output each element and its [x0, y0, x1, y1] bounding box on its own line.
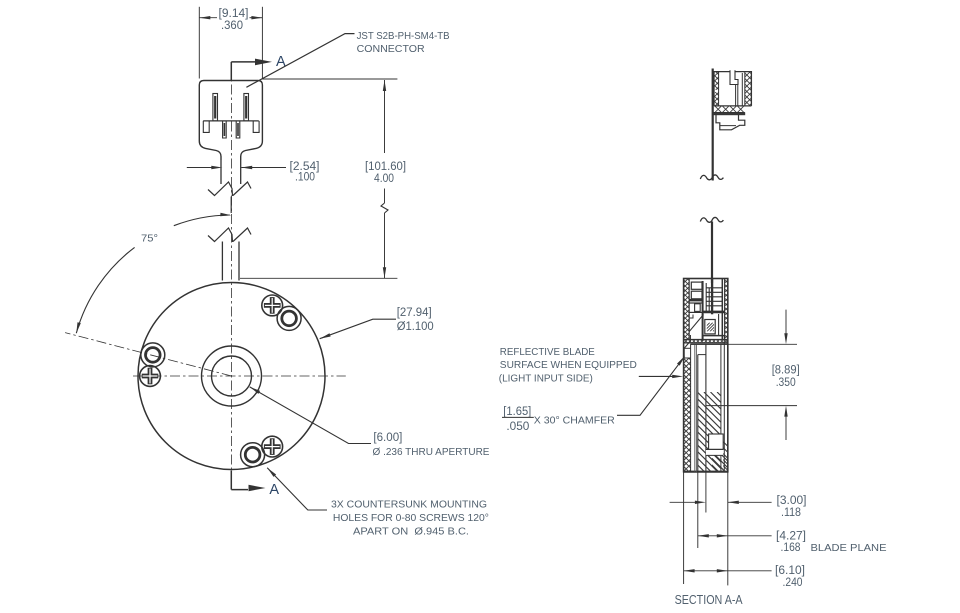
cable break upper (front view) — [208, 182, 233, 196]
svg-text:75°: 75° — [141, 233, 158, 245]
connector inner shelf line — [203, 120, 259, 122]
cable break lower (front view) — [208, 228, 233, 242]
svg-text:.350: .350 — [776, 377, 796, 389]
svg-text:APART ON Ø.945 B.C.: APART ON Ø.945 B.C. — [353, 527, 469, 538]
receptacle center post — [702, 281, 704, 341]
75 deg arc segment lower — [76, 247, 134, 333]
svg-text:[8.89]: [8.89] — [772, 364, 800, 376]
small shelf in slot — [698, 354, 706, 356]
svg-text:[1.65]: [1.65] — [503, 406, 531, 418]
receptacle window A1 — [691, 282, 702, 289]
receptacle inner right wall line — [721, 279, 723, 340]
section cut line A top — [230, 62, 232, 80]
svg-text:A: A — [269, 482, 279, 498]
receptacle inner line right of E — [718, 314, 720, 336]
connector side inner contact — [735, 85, 737, 106]
hatch window right — [709, 434, 724, 449]
window lower line — [706, 448, 723, 450]
svg-text:SECTION A-A: SECTION A-A — [675, 592, 743, 607]
dim [3.00]/.118 — [670, 501, 696, 503]
JST connector front view body — [199, 81, 262, 161]
connector side top notch — [730, 70, 738, 84]
inner vertical thin pair — [694, 344, 696, 471]
mounting hole bottom — [241, 443, 265, 467]
dim [101.60] bottom extension line — [240, 277, 397, 279]
countersunk screw left — [140, 366, 161, 387]
svg-text:4.00: 4.00 — [374, 173, 394, 185]
cable line lower (section view) — [711, 222, 713, 284]
horizontal centerline — [133, 375, 346, 377]
blade plane line — [697, 355, 699, 472]
svg-text:(LIGHT INPUT SIDE): (LIGHT INPUT SIDE) — [499, 373, 593, 384]
section body outline — [684, 279, 728, 472]
svg-text:HOLES FOR 0-80 SCREWS 120°: HOLES FOR 0-80 SCREWS 120° — [333, 513, 489, 524]
mounting hole left — [141, 343, 165, 367]
receptacle shelf line — [689, 302, 702, 304]
receptacle diagonal — [689, 315, 704, 332]
dim [8.89] arrows — [785, 310, 787, 334]
dim [4.27]/.168 — [698, 535, 728, 537]
svg-text:[4.27]: [4.27] — [776, 530, 806, 542]
75 deg arc segment upper — [174, 215, 230, 226]
break zig in dim line — [381, 203, 388, 213]
section cut line A bottom — [230, 471, 232, 490]
arc arrowhead lower — [76, 322, 81, 333]
contact ladder horizontals — [706, 287, 722, 289]
arrowhead left [9.14] — [199, 16, 210, 19]
dim [8.89] top extension line — [690, 343, 797, 345]
leader dia 1.100 — [320, 319, 396, 339]
svg-text:A: A — [276, 54, 286, 70]
svg-text:.118: .118 — [781, 507, 801, 519]
connector middle contact left — [223, 121, 227, 138]
dim [9.14] dimension line + arrows — [199, 17, 217, 19]
receptacle window C — [695, 304, 701, 312]
svg-text:.168: .168 — [781, 542, 801, 554]
svg-text:[6.00]: [6.00] — [373, 432, 402, 444]
connector side dark band — [713, 113, 745, 115]
contact ladder verticals — [705, 283, 707, 311]
blade slot right line — [705, 344, 707, 471]
right inner wall lines — [720, 344, 722, 471]
vertical centerline — [231, 66, 233, 470]
leader dia .236 aperture — [250, 387, 371, 444]
svg-text:.240: .240 — [783, 577, 803, 589]
receptacle dark band — [703, 311, 725, 314]
svg-text:[9.14]: [9.14] — [219, 8, 249, 20]
angled centerline 15 deg — [65, 333, 231, 376]
receptacle thick ledge left — [689, 299, 702, 301]
dim [9.14]/.360 extension lines — [198, 7, 200, 79]
extension line right edge — [727, 472, 729, 586]
svg-text:REFLECTIVE BLADE: REFLECTIVE BLADE — [500, 347, 595, 358]
chamfer step left — [684, 335, 690, 358]
svg-text:.100: .100 — [295, 172, 315, 184]
aperture circle — [212, 356, 252, 396]
receptacle window E with hatch — [705, 320, 715, 334]
svg-text:SURFACE WHEN EQUIPPED: SURFACE WHEN EQUIPPED — [500, 360, 637, 371]
connector middle contact right — [236, 121, 240, 138]
leader light input side — [639, 375, 673, 377]
cable stem lower segment — [221, 242, 223, 281]
svg-text:CONNECTOR: CONNECTOR — [357, 44, 425, 55]
svg-text:Ø1.100: Ø1.100 — [397, 321, 434, 333]
connector right foot slot — [253, 121, 259, 132]
cable break lower (section view) wavy — [700, 217, 723, 222]
svg-text:BLADE PLANE: BLADE PLANE — [811, 543, 887, 554]
section body bottom thick edge — [683, 471, 728, 473]
connector pin left — [213, 94, 218, 121]
svg-text:[101.60]: [101.60] — [365, 161, 406, 173]
encoder housing outer circle — [138, 283, 325, 470]
arc arrowhead upper — [220, 213, 231, 216]
svg-text:[3.00]: [3.00] — [777, 495, 807, 507]
extension line blade plane — [697, 472, 699, 548]
leader chamfer — [617, 360, 682, 415]
dim [101.60] top extension line — [262, 78, 397, 80]
receptacle step left — [689, 315, 693, 319]
extension line slot — [705, 472, 707, 513]
top surface of disc portion — [690, 343, 727, 345]
svg-text:.360: .360 — [221, 20, 243, 32]
svg-text:X 30° CHAMFER: X 30° CHAMFER — [534, 416, 615, 427]
arrowhead right [9.14] — [251, 16, 262, 19]
mounting hole top-right — [277, 306, 301, 330]
dim [8.89] bottom extension line — [706, 405, 797, 407]
cable break upper (section view) wavy — [700, 175, 723, 180]
cable stem upper segment — [220, 160, 222, 184]
connector side bottom band — [714, 105, 751, 107]
cable line into receptacle — [711, 279, 713, 315]
leader JST connector — [246, 34, 354, 88]
svg-text:3X COUNTERSUNK MOUNTING: 3X COUNTERSUNK MOUNTING — [331, 500, 487, 511]
connector side housing outline — [714, 72, 751, 106]
receptacle bottom band with hatch — [684, 339, 728, 341]
connector side strain relief latch — [716, 115, 745, 130]
connector side inner wall lines — [741, 73, 743, 106]
svg-text:JST S2B-PH-SM4-TB: JST S2B-PH-SM4-TB — [357, 31, 450, 42]
fraction bar — [502, 416, 534, 418]
leader countersunk holes — [267, 468, 327, 510]
svg-text:[6.10]: [6.10] — [775, 565, 805, 577]
connector left foot slot — [203, 121, 209, 132]
svg-text:.050: .050 — [506, 421, 529, 433]
cable line upper (section view) — [712, 69, 714, 181]
receptacle window A2 — [691, 291, 702, 299]
cable short mid segment — [230, 197, 232, 214]
section arrow A top — [255, 59, 272, 66]
hub outer circle — [202, 346, 262, 406]
countersunk screw top-right — [262, 295, 283, 316]
countersunk screw bottom — [262, 436, 283, 457]
connector pin right — [244, 94, 249, 121]
svg-text:Ø .236 THRU APERTURE: Ø .236 THRU APERTURE — [373, 447, 490, 458]
dim [2.54]/.100 arrows — [187, 167, 212, 169]
receptacle bottom shelf — [703, 335, 725, 337]
extension line left edge — [683, 472, 685, 584]
dim [6.10]/.240 — [684, 570, 728, 572]
section arrow A bottom — [249, 485, 266, 491]
dim [101.60] vertical dimension line — [384, 80, 386, 153]
arrowhead chamfer — [677, 356, 685, 366]
svg-text:[27.94]: [27.94] — [397, 307, 432, 319]
